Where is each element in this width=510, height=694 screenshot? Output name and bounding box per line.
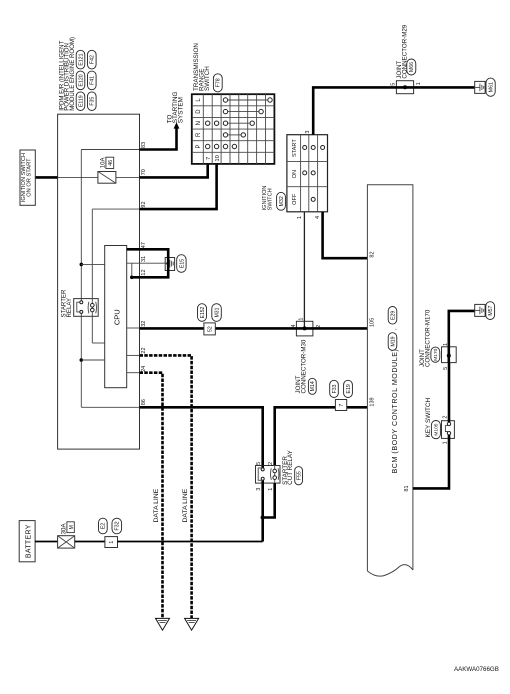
- svg-text:E19: E19: [346, 384, 352, 393]
- svg-text:1: 1: [416, 82, 422, 85]
- svg-text:BCM (BODY CONTROL MODULE): BCM (BODY CONTROL MODULE): [391, 349, 399, 474]
- svg-text:R: R: [196, 132, 202, 137]
- svg-text:M14: M14: [310, 381, 316, 391]
- svg-text:F55: F55: [296, 471, 302, 480]
- svg-text:F78: F78: [216, 78, 222, 87]
- svg-text:F35: F35: [90, 97, 96, 106]
- svg-text:CPU: CPU: [112, 309, 121, 325]
- svg-text:12: 12: [141, 269, 147, 275]
- svg-text:E2: E2: [101, 523, 107, 529]
- svg-text:E120: E120: [78, 74, 84, 86]
- svg-text:M57: M57: [488, 305, 494, 315]
- svg-text:52: 52: [208, 326, 214, 332]
- svg-text:RELAY: RELAY: [66, 298, 73, 318]
- svg-text:N: N: [196, 121, 202, 125]
- svg-text:1: 1: [268, 488, 274, 491]
- svg-text:E121: E121: [78, 53, 84, 65]
- svg-text:1: 1: [443, 343, 449, 346]
- svg-text:M32: M32: [279, 196, 285, 206]
- svg-text:3: 3: [256, 488, 262, 491]
- svg-text:47: 47: [141, 242, 147, 248]
- svg-text:CONNECTOR-M30: CONNECTOR-M30: [301, 339, 308, 393]
- svg-text:1: 1: [297, 216, 303, 219]
- svg-text:ON OR START: ON OR START: [27, 158, 33, 197]
- svg-text:5: 5: [443, 367, 449, 370]
- svg-text:MODULE ENGINE ROOM): MODULE ENGINE ROOM): [69, 37, 76, 111]
- svg-text:139: 139: [369, 397, 375, 406]
- svg-text:M31: M31: [214, 307, 220, 317]
- svg-text:E15: E15: [179, 259, 185, 268]
- svg-text:E119: E119: [78, 95, 84, 107]
- svg-text:M66: M66: [409, 62, 415, 72]
- svg-text:D: D: [196, 109, 202, 114]
- svg-text:1: 1: [442, 441, 448, 444]
- svg-text:1: 1: [109, 541, 115, 544]
- svg-text:START: START: [292, 139, 298, 157]
- svg-text:F32: F32: [115, 521, 121, 530]
- svg-text:E29: E29: [390, 311, 396, 320]
- svg-text:86: 86: [141, 399, 147, 405]
- svg-text:SYSTEM: SYSTEM: [177, 97, 184, 123]
- svg-text:F41: F41: [90, 76, 96, 85]
- svg-text:OFF: OFF: [292, 193, 298, 205]
- svg-text:DATA LINE: DATA LINE: [153, 488, 160, 522]
- svg-text:82: 82: [369, 251, 375, 257]
- svg-text:92: 92: [141, 201, 147, 207]
- svg-text:DATA LINE: DATA LINE: [182, 488, 189, 522]
- svg-text:30A: 30A: [60, 523, 67, 535]
- svg-text:32: 32: [141, 321, 147, 327]
- svg-text:E152: E152: [200, 306, 206, 318]
- svg-text:AAKWA0766GB: AAKWA0766GB: [454, 666, 499, 673]
- svg-text:M105: M105: [434, 423, 440, 435]
- svg-text:P: P: [196, 144, 202, 148]
- svg-text:70: 70: [141, 169, 147, 175]
- svg-text:F42: F42: [90, 55, 96, 64]
- svg-text:2: 2: [316, 325, 322, 328]
- svg-text:BATTERY: BATTERY: [25, 524, 32, 558]
- svg-text:M: M: [69, 525, 75, 530]
- svg-text:5: 5: [256, 462, 262, 465]
- svg-text:10: 10: [215, 155, 221, 161]
- svg-text:ON: ON: [292, 170, 298, 178]
- svg-text:3: 3: [305, 131, 311, 134]
- svg-text:83: 83: [141, 142, 147, 148]
- svg-text:CONNECTOR-M170: CONNECTOR-M170: [424, 309, 431, 367]
- svg-text:22: 22: [141, 347, 147, 353]
- svg-text:1: 1: [299, 318, 305, 321]
- svg-text:M19: M19: [390, 336, 396, 346]
- svg-text:7: 7: [339, 404, 345, 407]
- svg-text:5: 5: [390, 83, 396, 86]
- svg-text:2: 2: [268, 462, 274, 465]
- svg-text:M61: M61: [488, 82, 494, 92]
- svg-text:24: 24: [141, 366, 147, 372]
- svg-text:7: 7: [206, 157, 212, 160]
- svg-text:4: 4: [315, 216, 321, 219]
- svg-text:M170: M170: [433, 348, 439, 360]
- svg-text:31: 31: [141, 256, 147, 262]
- svg-text:SWITCH: SWITCH: [267, 188, 273, 210]
- svg-text:F33: F33: [332, 384, 338, 393]
- svg-text:105: 105: [369, 318, 375, 327]
- svg-text:81: 81: [404, 485, 410, 491]
- svg-text:SWITCH: SWITCH: [204, 66, 211, 91]
- svg-text:4: 4: [291, 325, 297, 328]
- svg-text:46: 46: [108, 160, 114, 166]
- svg-text:2: 2: [442, 416, 448, 419]
- svg-text:CUT RELAY: CUT RELAY: [287, 449, 294, 485]
